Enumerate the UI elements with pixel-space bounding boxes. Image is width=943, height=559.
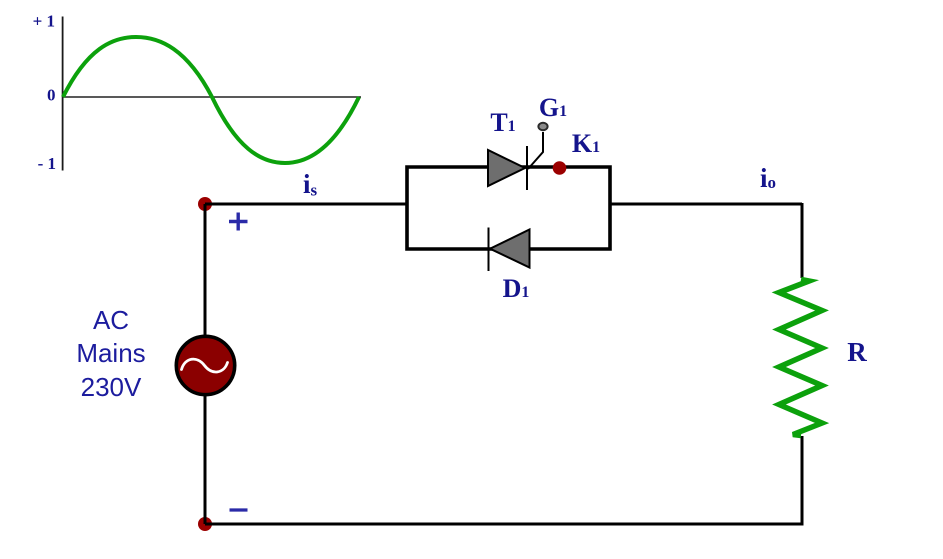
svg-text:+ 1: + 1 xyxy=(33,12,55,31)
wire left vertical (source branch) xyxy=(204,204,207,524)
sine waveform xyxy=(63,37,359,163)
waveform x-axis xyxy=(62,96,361,98)
svg-text:230V: 230V xyxy=(81,372,142,402)
parallel box outline xyxy=(407,167,610,249)
wire right vertical bottom (resistor to bottom rail) xyxy=(801,436,804,526)
svg-text:AC: AC xyxy=(93,305,129,335)
diode D1 xyxy=(489,228,530,272)
svg-text:- 1: - 1 xyxy=(38,154,56,173)
wire right vertical top (to resistor) xyxy=(801,203,804,278)
node K1 xyxy=(553,161,567,175)
node + (top-left) xyxy=(198,197,212,211)
label - polarity xyxy=(230,508,248,511)
wire bottom horizontal xyxy=(205,523,802,526)
AC source V1 xyxy=(176,336,234,394)
waveform y-axis xyxy=(62,17,64,171)
wire top horizontal (node + to box) xyxy=(205,203,407,206)
wire right horizontal (box to load) xyxy=(610,203,802,206)
svg-text:Mains: Mains xyxy=(76,338,145,368)
resistor R xyxy=(779,280,822,436)
thyristor T1 xyxy=(488,123,548,190)
label + polarity xyxy=(229,213,248,231)
node - (bottom-left) xyxy=(198,517,212,531)
svg-text:0: 0 xyxy=(47,86,56,105)
svg-text:R: R xyxy=(847,337,867,367)
